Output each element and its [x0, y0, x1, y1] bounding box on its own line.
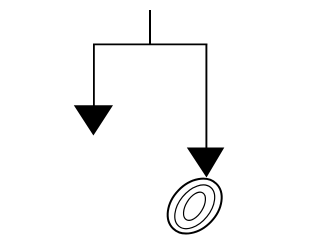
arrowhead: left down arrow — [74, 105, 113, 135]
wire: right vertical drop — [205, 44, 207, 150]
wire: horizontal bus — [93, 43, 207, 45]
coil symbol: outer ellipse — [157, 168, 233, 244]
coil symbol: inner ellipse — [179, 188, 210, 224]
coil symbol: middle ellipse — [167, 177, 223, 236]
wire: left vertical drop — [93, 44, 95, 108]
wire: top vertical stub — [149, 10, 151, 45]
arrowhead: right down arrow — [187, 148, 225, 178]
